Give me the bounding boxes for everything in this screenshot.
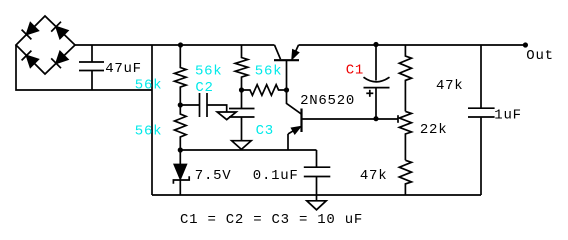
junction dot top of R1 bbox=[178, 42, 183, 47]
svg-text:C1: C1 bbox=[346, 62, 364, 78]
diode D3 bottom-left bbox=[22, 51, 39, 68]
transistor Q2 2N6520 bbox=[287, 90, 399, 150]
svg-text:47k: 47k bbox=[360, 168, 387, 184]
svg-text:56k: 56k bbox=[255, 63, 282, 79]
junction dot R1/C2 bbox=[178, 102, 183, 107]
svg-text:C3: C3 bbox=[256, 123, 274, 139]
svg-text:56k: 56k bbox=[195, 63, 222, 79]
diode D2 top-right bbox=[51, 22, 68, 39]
resistor R3 56k vertical x=241 bbox=[235, 45, 248, 90]
resistor R1 56k upper-left bbox=[175, 45, 187, 105]
capacitor C2 bbox=[180, 93, 226, 117]
diode D1 top-left bbox=[22, 23, 39, 40]
junction dot Out terminal bbox=[523, 42, 528, 47]
resistor 47k top bbox=[399, 45, 411, 111]
svg-text:1uF: 1uF bbox=[494, 108, 521, 124]
junction dot R4/Q1 base bbox=[284, 87, 289, 92]
transistor Q1 top bbox=[274, 45, 299, 90]
svg-text:22k: 22k bbox=[420, 122, 447, 138]
svg-text:C2: C2 bbox=[195, 80, 213, 96]
junction dot zener top bbox=[178, 147, 183, 152]
svg-text:47k: 47k bbox=[436, 78, 463, 94]
resistor R2 56k lower-left bbox=[175, 105, 187, 150]
svg-text:2N6520: 2N6520 bbox=[300, 93, 355, 109]
capacitor C1 polarized bbox=[364, 45, 390, 119]
wire vertical trunk x=152 bbox=[151, 45, 153, 195]
wire top rail right of Q1 bbox=[299, 44, 526, 46]
svg-text:C1 = C2 = C3 = 10 uF: C1 = C2 = C3 = 10 uF bbox=[180, 212, 363, 228]
wire mid rail y150 bbox=[180, 149, 316, 151]
junction dot C1/base wire bbox=[373, 116, 378, 121]
resistor R4 56k horizontal bbox=[242, 85, 287, 96]
bridge rectifier diamond bbox=[16, 16, 75, 74]
wire bottom rail bbox=[152, 194, 481, 196]
svg-text:Out: Out bbox=[526, 48, 553, 64]
svg-text:56k: 56k bbox=[135, 124, 162, 140]
svg-text:47uF: 47uF bbox=[105, 61, 142, 77]
svg-text:56k: 56k bbox=[135, 78, 162, 94]
capacitor C3 bbox=[229, 90, 255, 141]
resistor 47k bottom bbox=[399, 160, 411, 195]
wire left drop from bridge bbox=[16, 45, 152, 90]
svg-text:0.1uF: 0.1uF bbox=[253, 168, 299, 184]
arrow symbol below C2 bbox=[217, 112, 236, 120]
capacitor 47uF bbox=[79, 45, 104, 90]
resistor 22k bbox=[399, 111, 411, 160]
capacitor 1uF bbox=[468, 45, 495, 195]
junction dot top of C1 bbox=[373, 42, 378, 47]
zener diode 7.5V bbox=[173, 150, 189, 195]
0.1uF capacitor bbox=[304, 150, 331, 195]
ground symbol bbox=[307, 195, 326, 210]
potentiometer wiper bar bbox=[397, 115, 399, 123]
arrow symbol below C3 bbox=[232, 141, 252, 150]
junction dot R3/R4/C3 bbox=[239, 87, 244, 92]
svg-text:7.5V: 7.5V bbox=[195, 168, 232, 184]
wire top rail left of Q1 bbox=[75, 44, 275, 46]
diode D4 bottom-right bbox=[51, 52, 68, 69]
